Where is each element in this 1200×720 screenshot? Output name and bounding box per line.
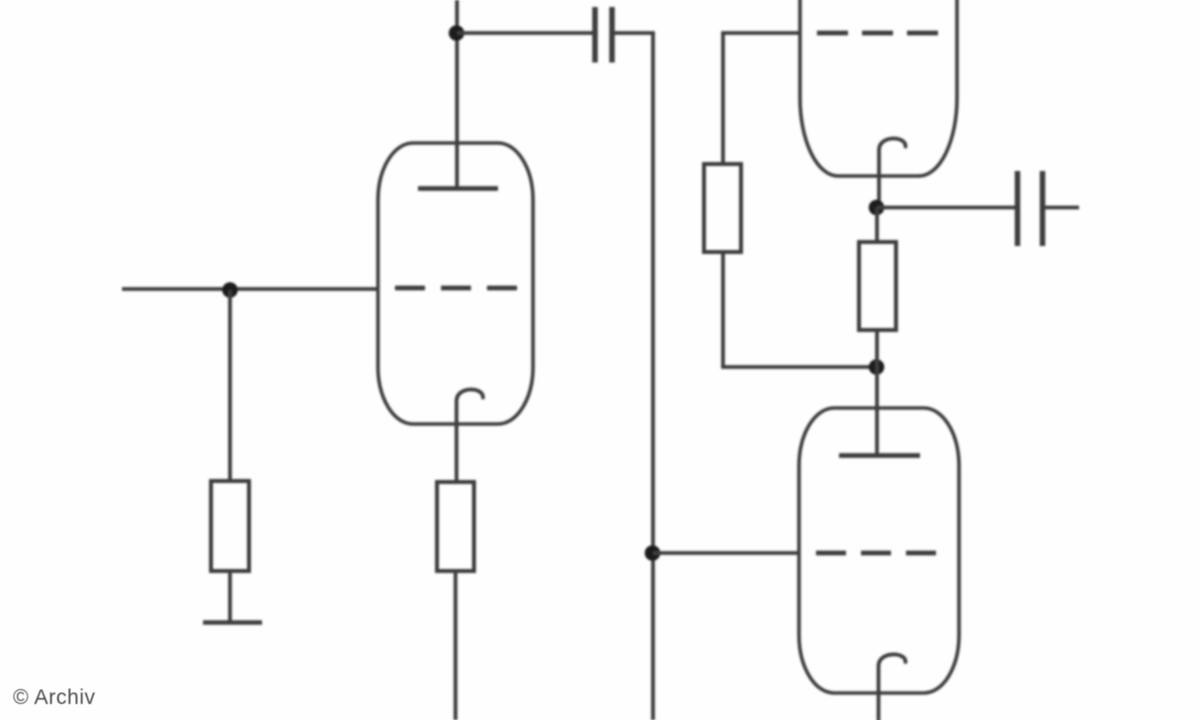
- watermark credit text: [13, 686, 96, 710]
- wire: long vertical bus x=653 down to bottom edge: [651, 33, 655, 720]
- node A: junction of plate lead and C1 wire: [449, 25, 465, 41]
- wire: input lead from left to V1 grid: [122, 287, 378, 291]
- wire: node A to C1 left plate: [457, 31, 593, 35]
- triode V1 grid (dashed): [395, 286, 518, 291]
- capacitor C1 right plate: [609, 7, 615, 63]
- wire: R3 bottom down and right to node D: [723, 252, 876, 367]
- wire: C2 right plate output stub: [1045, 206, 1079, 210]
- node B: junction on vertical bus feeding V3 grid: [645, 545, 661, 561]
- wire: node E to C2 left plate: [877, 206, 1015, 210]
- wire: R1 to ground: [228, 571, 232, 621]
- resistor R4 (V2 cathode resistor): [859, 242, 896, 330]
- triode V1 anode plate: [418, 186, 498, 191]
- triode V1 cathode hook: [457, 389, 484, 482]
- wire: node B to V3 grid: [653, 551, 800, 555]
- node C: junction of input wire and R1: [222, 282, 238, 298]
- triode V3 cathode hook and lead to bottom edge: [879, 654, 906, 720]
- wire: V2 grid lead to R3 top: [723, 33, 800, 164]
- wire: node C down to R1: [228, 290, 232, 481]
- triode V3 envelope: [799, 408, 959, 693]
- resistor R1 (grid leak): [211, 481, 249, 571]
- node E: junction of V2 cathode, R4 top and C2: [869, 200, 885, 216]
- wire: V1 plate lead from top edge down to plate: [455, 0, 459, 187]
- capacitor C1 left plate: [592, 7, 598, 63]
- wire: node E down to R4: [875, 208, 879, 243]
- triode V2 envelope (cut off at top): [800, 0, 957, 176]
- capacitor C2 left plate: [1015, 171, 1021, 246]
- capacitor C2 right plate: [1040, 171, 1046, 246]
- node D: junction of R3, R4 bottom and V3 plate lead: [869, 359, 885, 375]
- wire: node D down to V3 plate: [875, 367, 879, 455]
- ground terminal bar: [203, 620, 262, 624]
- resistor R2 (V1 cathode resistor): [437, 482, 474, 571]
- wire: C1 right plate to corner at x=653: [615, 33, 654, 35]
- triode V3 grid (dashed): [816, 551, 937, 556]
- resistor R3: [704, 164, 741, 252]
- triode V2 cathode hook: [879, 138, 906, 206]
- wire: R2 down to bottom edge: [454, 571, 458, 720]
- wire: R4 bottom to node D: [875, 330, 879, 367]
- triode V3 anode plate: [839, 453, 920, 458]
- triode V2 grid (dashed): [817, 31, 938, 36]
- triode V1 envelope: [378, 143, 533, 424]
